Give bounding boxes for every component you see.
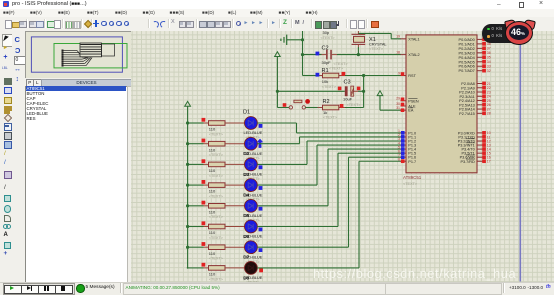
resistor 110 row 6 — [204, 224, 245, 240]
svg-text:32: 32 — [487, 69, 491, 73]
svg-text:8: 8 — [398, 157, 400, 161]
svg-text:C3: C3 — [344, 80, 351, 86]
svg-text:110: 110 — [209, 251, 216, 256]
svg-text:P0.1/AD1: P0.1/AD1 — [459, 42, 475, 46]
LED D2 — [243, 137, 262, 160]
node junction (302.5,54.6) — [301, 53, 304, 56]
svg-text:110: 110 — [209, 209, 216, 214]
wire LED supply bus — [187, 110, 189, 268]
LED D7 — [243, 241, 262, 264]
svg-text:29: 29 — [396, 97, 400, 101]
devices header — [25, 78, 131, 86]
pin 14 P3.4 — [462, 147, 491, 151]
menu bar — [0, 9, 554, 18]
wire LED row 1 to P1.0 — [257, 123, 401, 133]
svg-text:P0.6/AD6: P0.6/AD6 — [459, 65, 475, 69]
wire bus to resistor row 6 — [188, 226, 204, 228]
title bar — [0, 0, 554, 10]
state square LED row 5 (blue) — [259, 207, 263, 211]
capacitor C1 label remnant — [321, 30, 336, 40]
svg-text:30pF: 30pF — [322, 60, 332, 65]
pin 13 P3.3 — [458, 143, 491, 148]
state square C2 left (blue) — [316, 52, 320, 56]
state square resistor row 7 (red) — [202, 242, 206, 246]
svg-text:P0.3/AD3: P0.3/AD3 — [459, 51, 475, 55]
resistor 110 row 7 — [204, 245, 245, 261]
resistor 110 row 1 — [204, 121, 245, 137]
device list — [25, 86, 129, 284]
node junction bus row 7 — [186, 246, 189, 249]
power VCC arrow (LED rail) — [185, 101, 191, 110]
LED D3 — [243, 158, 262, 181]
pin 7 P1.6 — [398, 153, 416, 159]
orientation toolbar — [12, 31, 26, 282]
node junction (277.4,91.3) — [276, 90, 279, 93]
wire R2 to RST node vertical — [345, 107, 364, 109]
pin 39 P0.0 — [459, 38, 491, 42]
wire LED row 5 to P1.4 — [257, 149, 401, 206]
state square LED row 3 (blue) — [259, 165, 263, 169]
svg-text:R1: R1 — [322, 68, 329, 74]
pin 8 P1.7 — [398, 157, 416, 163]
wire bus to resistor row 5 — [188, 205, 204, 207]
node junction bus row 4 — [186, 184, 189, 187]
wire LED row 2 to P1.1 — [257, 137, 401, 144]
svg-text:D1: D1 — [243, 110, 250, 116]
pin 25 P2.4 — [459, 99, 491, 103]
pin 1 P1.0 — [398, 129, 416, 135]
pin 31 EA — [396, 106, 414, 113]
wire LED row 6 to P1.5 — [257, 153, 401, 226]
wire crystal top to XTAL1 — [358, 33, 401, 38]
pin 6 P1.5 — [398, 149, 416, 155]
pin 34 P0.5 — [459, 60, 491, 64]
wire bus to resistor row 4 — [188, 184, 204, 186]
node junction (358.4,54.6) — [357, 53, 360, 56]
svg-text:P0.0/AD0: P0.0/AD0 — [459, 38, 475, 42]
capacitor C2 — [303, 45, 349, 66]
pin 17 P3.7 — [460, 159, 490, 164]
state square EA pin (red) — [401, 108, 405, 112]
state square LED row 1 (blue) — [259, 124, 263, 128]
pin 22 P2.1 — [461, 86, 490, 90]
wire C2 to XTAL2 — [337, 54, 401, 56]
crystal X1 — [352, 31, 388, 51]
pin 9 RST — [398, 71, 417, 78]
svg-text:P0.2/AD2: P0.2/AD2 — [459, 47, 475, 51]
state square PSEN pin (red) — [401, 98, 405, 102]
pin 16 P3.6 — [460, 155, 491, 160]
LED D4 — [243, 179, 262, 202]
state square resistor row 3 (red) — [202, 159, 206, 163]
bottom bar — [0, 282, 554, 295]
state square resistor row 8 (red) — [202, 263, 206, 267]
pin 30 ALE — [396, 102, 416, 109]
wire VCC node down to button — [277, 91, 289, 107]
message indicator — [76, 284, 84, 292]
svg-text:P2.7/A15: P2.7/A15 — [459, 112, 475, 116]
node junction bus row 6 — [186, 225, 189, 228]
svg-text:<TEXT>: <TEXT> — [322, 85, 337, 89]
svg-text:<TEXT>: <TEXT> — [329, 66, 344, 70]
wire button to R2 — [306, 107, 318, 109]
node junction bus row 1 — [186, 121, 189, 124]
svg-text:18: 18 — [396, 50, 400, 54]
power VCC arrow (EA) — [377, 91, 383, 100]
svg-text:10k: 10k — [322, 79, 328, 84]
svg-text:C2: C2 — [322, 45, 329, 51]
state square resistor row 1 (red) — [202, 118, 206, 122]
svg-text:RST: RST — [408, 74, 416, 78]
node junction bus row 3 — [186, 163, 189, 166]
wire bus to resistor row 7 — [188, 246, 204, 248]
pin 3 P1.2 — [398, 137, 416, 143]
svg-text:1k: 1k — [323, 110, 327, 115]
pin 37 P0.2 — [459, 46, 491, 50]
svg-text:110: 110 — [209, 147, 216, 152]
wire LED row 3 to P1.2 — [257, 141, 401, 164]
svg-text:<TEXT>: <TEXT> — [209, 132, 224, 136]
state square C3 left (red) — [338, 87, 342, 91]
state square R2 right (red) — [340, 104, 344, 108]
resistor 110 row 3 — [204, 162, 245, 178]
wire LED row 4 to P1.3 — [257, 145, 401, 185]
svg-text:R2: R2 — [323, 99, 330, 105]
svg-text:9: 9 — [398, 71, 400, 75]
svg-text:<TEXT>: <TEXT> — [369, 47, 384, 51]
resistor R1 — [303, 66, 346, 89]
node junction bus row 8 — [187, 267, 189, 269]
svg-text:31: 31 — [396, 106, 400, 110]
svg-text:110: 110 — [209, 127, 216, 132]
toolbar — [0, 17, 554, 32]
svg-text:P0.5/AD5: P0.5/AD5 — [459, 60, 475, 64]
state square LED row 4 (blue) — [259, 186, 263, 190]
pin 29 PSEN — [396, 97, 419, 104]
svg-text:110: 110 — [209, 230, 216, 235]
state arrow LED row 2 (blue) — [257, 139, 263, 148]
pin 23 P2.2 — [459, 90, 491, 94]
wire bus to resistor row 2 — [188, 143, 204, 145]
pin 32 P0.7 — [459, 69, 491, 73]
pin 28 P2.7 — [459, 111, 491, 115]
state square C3 right (red) — [357, 87, 361, 91]
state square R1 right (red) — [342, 72, 346, 76]
overview minimap — [25, 31, 132, 81]
node junction (302.5,39.8) — [301, 38, 304, 41]
svg-text:P3.7/RD: P3.7/RD — [460, 160, 475, 164]
status field — [123, 283, 386, 295]
pin 11 P3.1 — [458, 135, 490, 139]
pin 12 P3.2 — [458, 139, 491, 144]
resistor 110 row 8 — [204, 266, 245, 282]
svg-text:110: 110 — [209, 189, 216, 194]
wire bus to resistor row 3 — [188, 163, 204, 165]
wire VCC to EA pin — [380, 100, 401, 111]
pin 10 P3.0 — [458, 131, 491, 135]
pin 21 P2.0 — [461, 82, 490, 86]
pin 36 P0.3 — [459, 51, 491, 55]
pin 33 P0.6 — [459, 64, 491, 68]
svg-text:<TEXT>: <TEXT> — [403, 182, 418, 186]
svg-text:19: 19 — [396, 35, 400, 39]
svg-text:PSEN: PSEN — [408, 99, 419, 103]
wire LED row 7 to P1.6 — [257, 157, 401, 247]
svg-text:<TEXT>: <TEXT> — [209, 215, 224, 219]
svg-text:37: 37 — [487, 47, 491, 51]
LED D1 — [243, 110, 263, 140]
LED D8 — [243, 262, 262, 285]
state square LED row 6 (blue) — [259, 228, 263, 232]
svg-text:<TEXT>: <TEXT> — [323, 115, 338, 119]
wire bus to resistor row 1 — [188, 122, 204, 124]
pin 5 P1.4 — [398, 145, 416, 151]
ground — [281, 35, 287, 45]
resistor 110 row 4 — [204, 183, 245, 199]
svg-text:<TEXT>: <TEXT> — [347, 103, 362, 107]
svg-text:<TEXT>: <TEXT> — [209, 236, 224, 240]
state square RST pin (red) — [401, 72, 405, 76]
state square R1 left (blue) — [316, 73, 320, 77]
button (push switch) — [289, 99, 310, 109]
node junction bus row 2 — [186, 142, 189, 145]
node junction bus row 5 — [186, 204, 189, 207]
wire R1 to RST — [345, 75, 401, 77]
state square button left (red) — [283, 103, 287, 107]
svg-text:CRYSTAL: CRYSTAL — [369, 42, 387, 47]
wire crystal bottom to XTAL2 net — [357, 47, 359, 55]
svg-text:<TEXT>: <TEXT> — [209, 153, 224, 157]
wire bus to resistor row 8 — [188, 267, 204, 269]
svg-text:AT89C51: AT89C51 — [403, 175, 422, 180]
svg-text:<TEXT>: <TEXT> — [209, 257, 224, 261]
sim control buttons — [3, 283, 75, 295]
resistor R2 — [318, 99, 346, 119]
wire VCC down to node — [276, 61, 278, 91]
state square LED row 7 (blue) — [259, 248, 263, 252]
46% badge — [504, 18, 517, 30]
svg-text:P0.4/AD4: P0.4/AD4 — [459, 56, 475, 60]
svg-text:33: 33 — [487, 65, 491, 69]
state square LED row 8 (red) — [259, 269, 263, 273]
wire node to C3 — [277, 90, 344, 92]
node junction (363.6,91.3) — [362, 90, 365, 93]
pin 2 P1.1 — [398, 133, 416, 139]
net speed overlay — [482, 24, 524, 43]
power VCC arrow (reset) — [275, 52, 281, 61]
wire C3 to RST node — [358, 90, 364, 92]
svg-text:<TEXT>: <TEXT> — [321, 36, 336, 40]
wire ground to node — [287, 39, 303, 41]
svg-text:36: 36 — [487, 51, 491, 55]
svg-text:10uF: 10uF — [343, 97, 353, 102]
pin 19 XTAL1 — [396, 35, 420, 42]
pin 24 P2.3 — [459, 94, 490, 98]
wire RST node vertical — [363, 76, 365, 108]
svg-text:35: 35 — [487, 56, 491, 60]
pin 26 P2.5 — [459, 103, 491, 107]
schematic canvas — [131, 31, 554, 282]
state square resistor row 5 (red) — [202, 201, 206, 205]
svg-text:34: 34 — [487, 60, 491, 64]
resistor 110 row 5 — [204, 204, 245, 220]
svg-text:EA: EA — [408, 109, 414, 113]
pin 35 P0.4 — [459, 55, 491, 59]
LED D6 — [243, 220, 262, 243]
watermark — [313, 266, 516, 281]
pin 38 P0.1 — [459, 42, 491, 46]
pin 27 P2.6 — [459, 107, 491, 111]
state square ALE pin (red) — [401, 103, 405, 107]
pin 18 XTAL2 — [396, 50, 420, 57]
svg-text:LED-BLUE: LED-BLUE — [244, 130, 263, 135]
node junction (363.6,75.5) — [362, 74, 365, 77]
svg-text:110: 110 — [209, 272, 216, 277]
wire vertical bus x=302.5 — [302, 31, 304, 76]
svg-text:110: 110 — [209, 168, 216, 173]
pin 15 P3.5 — [462, 151, 491, 155]
capacitor C3 — [343, 80, 361, 107]
svg-text:30p: 30p — [323, 30, 330, 35]
svg-text:28: 28 — [487, 112, 491, 116]
svg-text:17: 17 — [487, 160, 491, 164]
left tool strip — [0, 31, 13, 282]
svg-text:<TEXT>: <TEXT> — [209, 174, 224, 178]
svg-text:XTAL2: XTAL2 — [408, 53, 419, 57]
state square resistor row 4 (red) — [202, 180, 206, 184]
state square resistor row 2 (red) — [202, 139, 206, 143]
svg-text:XTAL1: XTAL1 — [408, 37, 419, 41]
wire LED row 8 to P1.7 — [257, 161, 401, 268]
LED D5 — [243, 199, 262, 222]
svg-text:<TEXT>: <TEXT> — [209, 195, 224, 199]
microcontroller U1 AT89C51 — [403, 35, 477, 186]
svg-text:P1.7: P1.7 — [408, 160, 416, 164]
svg-text:P0.7/AD7: P0.7/AD7 — [459, 69, 475, 73]
state square resistor row 6 (red) — [202, 221, 206, 225]
pin 4 P1.3 — [398, 141, 416, 147]
sheet border (right edge) — [519, 31, 521, 282]
resistor 110 row 2 — [204, 141, 245, 157]
